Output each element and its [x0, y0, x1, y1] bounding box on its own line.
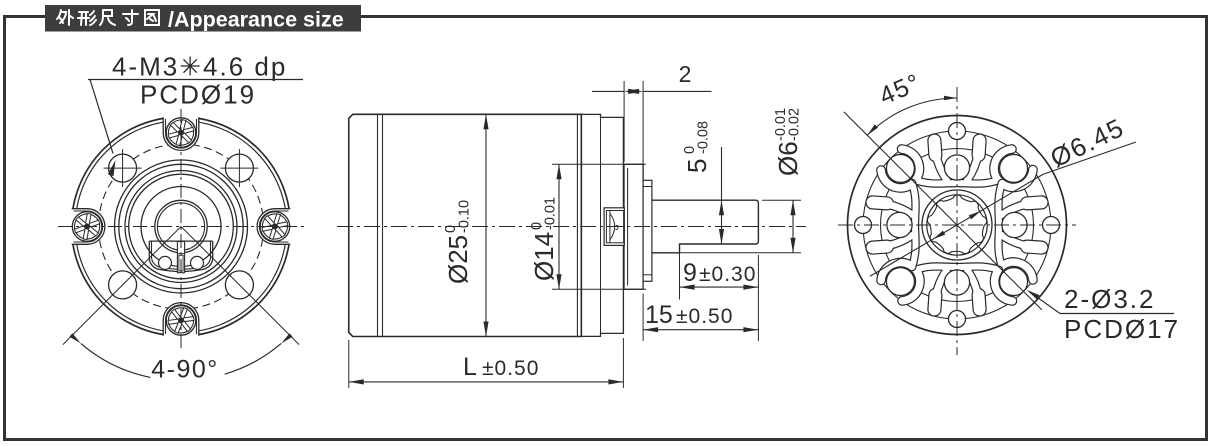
- title banner: [45, 5, 361, 32]
- key slot center: [177, 242, 184, 273]
- 45deg arc dimension: [867, 98, 957, 135]
- svg-text:±0.50: ±0.50: [676, 305, 733, 328]
- left view: PCD19 dashed bolt circle: [98, 144, 263, 309]
- front housing: [581, 114, 623, 336]
- svg-text:-0.08: -0.08: [696, 121, 712, 154]
- small hole W: [855, 217, 872, 234]
- dim Ø25: [485, 114, 487, 336]
- svg-text:15: 15: [645, 301, 673, 329]
- pin circle N: [944, 155, 969, 180]
- planet hole SW: [886, 268, 914, 296]
- 135deg diagonal line: [844, 112, 1042, 310]
- phillips screw E: [260, 212, 290, 242]
- side view body outline: [349, 114, 582, 336]
- shaft bottom edge/ext: [680, 252, 802, 254]
- 2-Ø3.2 leader: [1029, 292, 1060, 314]
- svg-text:2-Ø3.2: 2-Ø3.2: [1064, 284, 1156, 314]
- svg-text:9: 9: [683, 259, 697, 287]
- dim 5: [721, 147, 723, 244]
- screw recess N: [163, 115, 199, 151]
- svg-text:Ø14: Ø14: [529, 232, 559, 281]
- left view: shaft bore circles: [155, 200, 207, 252]
- svg-text:2: 2: [679, 61, 692, 87]
- M3 hole SE: [225, 271, 253, 299]
- shaft with D-flat: [652, 200, 759, 253]
- M3 hole SW: [109, 271, 137, 299]
- connector pin hole left: [159, 256, 172, 269]
- left view horizontal centerline: [58, 226, 305, 228]
- dim L: [348, 340, 350, 388]
- svg-text:-0.02: -0.02: [787, 108, 803, 141]
- planet hole SE: [1000, 268, 1028, 296]
- phillips screw S: [166, 306, 196, 336]
- stamped cutout W: [873, 170, 916, 280]
- svg-text:-0.10: -0.10: [457, 200, 473, 233]
- svg-text:5: 5: [682, 159, 712, 173]
- dim Ø6: [762, 199, 801, 201]
- svg-text:Ø25: Ø25: [443, 235, 473, 284]
- small hole S: [949, 311, 966, 328]
- dim 2: [623, 81, 625, 162]
- left view: front boss circles (Ø14): [115, 160, 248, 293]
- connector block bottom: [149, 241, 212, 271]
- stamped cutout N: [902, 141, 1012, 184]
- left view: front face outer rim circles: [72, 117, 291, 336]
- screw recess E: [257, 209, 293, 245]
- svg-text:PCDØ17: PCDØ17: [1064, 314, 1180, 344]
- body seam lines: [377, 114, 379, 336]
- pin circle W: [887, 212, 912, 237]
- splined bore: [927, 195, 986, 254]
- pin circle E: [1002, 212, 1027, 237]
- small hole E: [1043, 217, 1060, 234]
- svg-text:±0.50: ±0.50: [482, 357, 539, 380]
- side view centerline: [337, 226, 806, 228]
- stamped cutout E: [998, 170, 1041, 280]
- small hole N: [949, 123, 966, 140]
- leader 4-M3: [90, 80, 113, 154]
- planet hole NE: [1000, 154, 1028, 182]
- rear circle r94: [863, 131, 1051, 319]
- M3 hole NW: [109, 154, 137, 182]
- pin circle S: [944, 270, 969, 295]
- 4-90 angle dimension arc: [81, 343, 151, 377]
- svg-text:Ø6: Ø6: [773, 141, 803, 176]
- bearing ring: [643, 180, 652, 281]
- front plate boss (Ø14 x 2): [624, 164, 643, 289]
- rear centerlines: [838, 224, 1076, 226]
- M3 hole NE: [225, 154, 253, 182]
- rear view outer circle: [848, 116, 1067, 335]
- left view vertical centerline: [180, 109, 182, 351]
- screw recess S: [163, 303, 199, 339]
- 45deg diagonal centerlines to SW and SE: [63, 227, 181, 345]
- dim 15: [642, 294, 644, 342]
- svg-text:±0.30: ±0.30: [699, 263, 756, 286]
- Ø6.45 dimension line: [870, 174, 1043, 276]
- phillips screw N: [166, 118, 196, 148]
- connector pin hole right: [191, 256, 204, 269]
- svg-text:L: L: [463, 353, 477, 381]
- left view: bearing ring circles: [125, 171, 237, 283]
- svg-text:4-M3✳4.6 dp: 4-M3✳4.6 dp: [112, 52, 287, 82]
- svg-text:4-90°: 4-90°: [151, 356, 219, 384]
- dim Ø14: [552, 163, 646, 165]
- left view: center opening circle: [141, 187, 221, 267]
- center hub circles: [922, 190, 992, 260]
- chord line: [149, 240, 212, 242]
- dim 9: [679, 246, 681, 300]
- rear PCD17 circle: [881, 149, 1034, 302]
- stamped cutout S: [902, 266, 1012, 309]
- internal gear detail: [604, 208, 624, 246]
- planet hole NW: [886, 154, 914, 182]
- screw recess W: [69, 209, 105, 245]
- svg-text:PCDØ19: PCDØ19: [140, 80, 256, 110]
- svg-text:-0.01: -0.01: [543, 197, 559, 230]
- phillips screw W: [72, 212, 102, 242]
- svg-text:/Appearance size: /Appearance size: [168, 8, 344, 32]
